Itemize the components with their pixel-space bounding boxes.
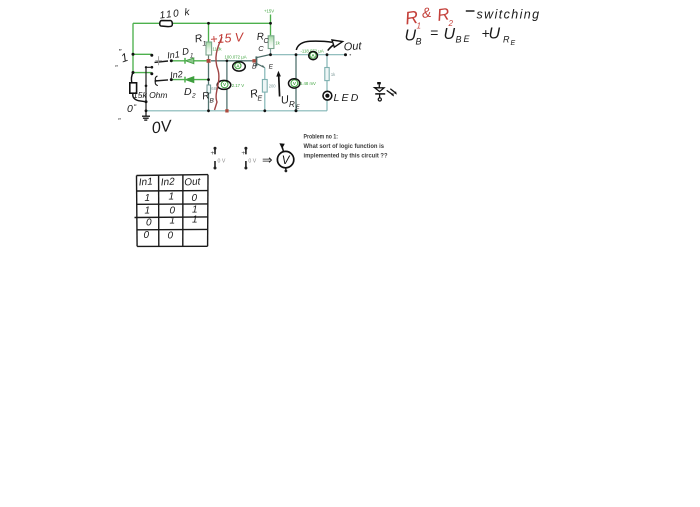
svg-text:Problem no 1:: Problem no 1: — [304, 133, 339, 140]
svg-text:B: B — [456, 35, 462, 45]
svg-text:In1: In1 — [138, 177, 153, 189]
svg-text:In1: In1 — [167, 49, 180, 60]
svg-text:E: E — [511, 40, 516, 47]
svg-text:200: 200 — [269, 84, 277, 89]
svg-text:In2: In2 — [160, 177, 175, 189]
svg-text:Out: Out — [184, 176, 202, 188]
svg-text:0: 0 — [144, 230, 150, 241]
svg-text:V: V — [282, 155, 291, 167]
svg-text:U: U — [489, 26, 501, 43]
svg-text:+: + — [211, 150, 215, 157]
svg-text:In2: In2 — [170, 69, 183, 80]
svg-text:0 V: 0 V — [218, 159, 226, 165]
svg-text:Out: Out — [343, 40, 362, 53]
svg-text:R: R — [503, 35, 510, 45]
svg-text:+15 V: +15 V — [210, 30, 246, 46]
svg-text:1: 1 — [192, 215, 198, 226]
svg-text:U: U — [444, 26, 456, 43]
svg-text:E: E — [269, 64, 274, 71]
svg-text:0: 0 — [168, 231, 174, 242]
svg-text:E: E — [296, 105, 300, 111]
svg-text:0: 0 — [127, 103, 133, 115]
svg-text:R: R — [289, 100, 295, 109]
svg-text:1: 1 — [417, 22, 421, 31]
svg-text:D: D — [181, 46, 189, 58]
svg-text:2.17 V: 2.17 V — [232, 83, 245, 88]
svg-text:1k: 1k — [275, 41, 280, 46]
svg-text:switching: switching — [477, 8, 541, 22]
svg-text:⇒: ⇒ — [262, 153, 273, 167]
svg-text:1: 1 — [169, 192, 175, 203]
svg-text:LED: LED — [334, 92, 361, 104]
svg-text:=: = — [430, 25, 438, 41]
svg-text:0V: 0V — [151, 118, 174, 138]
svg-text:100.072 µA: 100.072 µA — [225, 55, 247, 60]
svg-text:What sort of logic function is: What sort of logic function is — [304, 143, 385, 150]
svg-text:1: 1 — [190, 54, 193, 60]
svg-text:1: 1 — [170, 216, 176, 227]
svg-text:+15V: +15V — [264, 9, 274, 14]
svg-text:E: E — [464, 34, 471, 44]
svg-text:1: 1 — [203, 41, 207, 48]
svg-text:1: 1 — [145, 206, 151, 217]
svg-text:0 V: 0 V — [248, 159, 256, 165]
svg-text:0: 0 — [192, 193, 198, 204]
svg-text:C: C — [258, 44, 264, 53]
svg-text:&: & — [421, 4, 432, 21]
svg-text:0: 0 — [146, 218, 152, 229]
svg-text:110 k: 110 k — [159, 7, 192, 22]
svg-text:2: 2 — [191, 93, 196, 100]
svg-text:„: „ — [118, 112, 122, 121]
svg-text:“: “ — [134, 103, 137, 112]
svg-text:B: B — [416, 37, 422, 47]
svg-text:D: D — [184, 86, 192, 98]
svg-text:B: B — [252, 64, 257, 71]
svg-text:15k Ohm: 15k Ohm — [133, 90, 168, 100]
svg-text:1k: 1k — [331, 72, 336, 77]
svg-text:B: B — [210, 98, 215, 105]
svg-text:„: „ — [115, 59, 119, 68]
svg-text:1: 1 — [119, 50, 130, 65]
svg-text:implemented by this circuit ??: implemented by this circuit ?? — [304, 152, 388, 159]
svg-text:1: 1 — [145, 193, 151, 204]
svg-text:+: + — [241, 150, 245, 157]
svg-text:E: E — [258, 96, 263, 103]
